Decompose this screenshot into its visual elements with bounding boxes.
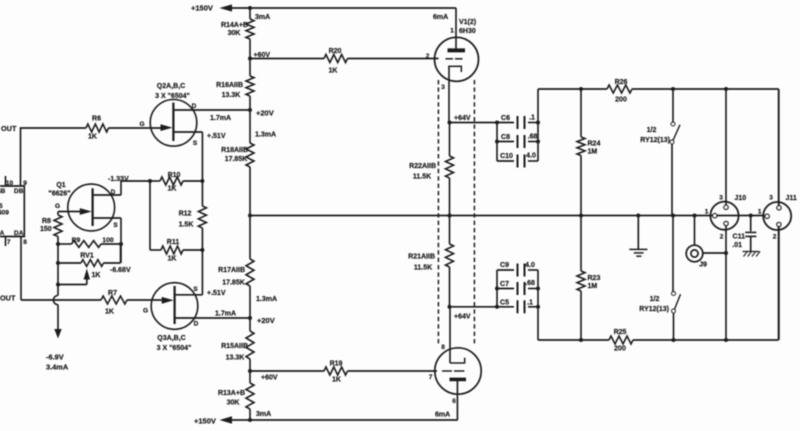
svg-text:+.51V: +.51V: [207, 290, 226, 297]
svg-text:R6: R6: [92, 116, 101, 123]
svg-text:C5: C5: [500, 300, 509, 307]
svg-text:4.0: 4.0: [526, 153, 536, 160]
svg-text:1/2: 1/2: [650, 296, 660, 303]
svg-text:30K: 30K: [228, 30, 241, 37]
svg-text:1.7mA: 1.7mA: [210, 115, 231, 122]
svg-text:3: 3: [769, 195, 773, 202]
svg-text:R7: R7: [108, 290, 117, 297]
svg-text:6: 6: [452, 398, 456, 405]
svg-text:.68: .68: [525, 280, 535, 287]
svg-text:3 X "6504": 3 X "6504": [157, 345, 192, 352]
svg-text:G: G: [55, 203, 60, 210]
svg-text:.1: .1: [527, 300, 533, 307]
svg-text:C10: C10: [500, 153, 513, 160]
svg-text:R23: R23: [588, 275, 601, 282]
svg-text:1K: 1K: [92, 272, 101, 279]
svg-text:2: 2: [720, 234, 724, 241]
svg-text:G: G: [139, 121, 144, 128]
svg-text:C6: C6: [501, 115, 510, 122]
svg-text:1K: 1K: [329, 68, 338, 75]
svg-text:RY12(13): RY12(13): [639, 306, 669, 313]
svg-text:13.3K: 13.3K: [222, 92, 241, 99]
svg-text:OUT: OUT: [0, 294, 16, 303]
svg-text:OUT: OUT: [1, 124, 17, 133]
svg-text:R22AIIB: R22AIIB: [409, 163, 436, 170]
svg-text:7: 7: [429, 374, 433, 381]
svg-text:C7: C7: [500, 281, 509, 288]
svg-text:10: 10: [6, 180, 14, 187]
svg-text:J9: J9: [699, 262, 707, 269]
svg-text:C8: C8: [501, 134, 510, 141]
svg-text:-6.9V: -6.9V: [46, 353, 64, 362]
svg-text:Q3A,B,C: Q3A,B,C: [157, 335, 185, 342]
svg-text:D: D: [192, 103, 197, 110]
svg-text:1: 1: [705, 209, 709, 216]
svg-text:C9: C9: [500, 262, 509, 269]
svg-text:R15AIIB: R15AIIB: [221, 343, 248, 350]
svg-text:D: D: [111, 189, 116, 196]
svg-text:R12: R12: [179, 211, 192, 218]
svg-text:.68: .68: [528, 134, 538, 141]
svg-text:R24: R24: [588, 141, 601, 148]
svg-text:R26: R26: [615, 79, 628, 86]
svg-text:J10: J10: [735, 195, 747, 202]
svg-text:+64V: +64V: [454, 314, 471, 321]
svg-text:3mA: 3mA: [255, 14, 270, 21]
svg-text:1.5K: 1.5K: [179, 222, 194, 229]
svg-text:R19: R19: [330, 361, 343, 368]
svg-text:C11: C11: [733, 234, 746, 241]
svg-text:200: 200: [615, 97, 627, 104]
svg-text:R17AIIB: R17AIIB: [218, 267, 245, 274]
svg-text:J11: J11: [786, 195, 797, 202]
svg-text:R25: R25: [614, 329, 627, 336]
svg-text:3 X "6504": 3 X "6504": [155, 93, 190, 100]
svg-text:8: 8: [23, 239, 27, 246]
svg-text:+150V: +150V: [191, 4, 213, 13]
svg-text:"6626": "6626": [48, 191, 70, 198]
svg-text:4B: 4B: [0, 188, 6, 195]
svg-text:RY12(13): RY12(13): [640, 137, 670, 144]
svg-text:+20V: +20V: [257, 316, 275, 325]
svg-text:4A: 4A: [0, 230, 5, 237]
svg-text:3: 3: [719, 195, 723, 202]
svg-text:S: S: [193, 286, 198, 293]
svg-text:R16AIIB: R16AIIB: [216, 82, 243, 89]
svg-text:6H30: 6H30: [459, 28, 476, 35]
svg-text:1K: 1K: [168, 186, 177, 193]
svg-text:1K: 1K: [105, 309, 114, 316]
svg-text:150: 150: [40, 226, 52, 233]
svg-text:8: 8: [441, 344, 445, 351]
svg-text:G: G: [143, 308, 148, 315]
svg-text:3: 3: [441, 84, 445, 91]
svg-text:30K: 30K: [227, 400, 240, 407]
svg-text:1.3mA: 1.3mA: [255, 132, 276, 139]
svg-text:6mA: 6mA: [435, 412, 450, 419]
svg-text:D: D: [194, 321, 199, 328]
svg-text:R8: R8: [42, 218, 51, 225]
svg-text:R10: R10: [168, 172, 181, 179]
svg-text:2: 2: [773, 234, 777, 241]
svg-text:1.7mA: 1.7mA: [215, 311, 236, 318]
svg-text:409: 409: [0, 210, 9, 217]
svg-text:6mA: 6mA: [433, 14, 448, 21]
svg-text:-1.33V: -1.33V: [108, 176, 129, 183]
svg-text:1K: 1K: [168, 256, 177, 263]
svg-text:1: 1: [758, 209, 762, 216]
svg-text:1K: 1K: [88, 134, 97, 141]
svg-text:11.5K: 11.5K: [414, 265, 432, 272]
svg-text:+60V: +60V: [261, 375, 278, 382]
svg-text:RV1: RV1: [80, 253, 94, 260]
svg-text:17.85K: 17.85K: [225, 156, 248, 163]
svg-text:2: 2: [426, 53, 430, 60]
svg-text:11.5K: 11.5K: [413, 174, 431, 181]
svg-text:+.51V: +.51V: [207, 133, 226, 140]
svg-text:Q2A,B,C: Q2A,B,C: [157, 83, 185, 90]
svg-text:R11: R11: [167, 239, 180, 246]
svg-text:.1: .1: [529, 115, 535, 122]
svg-text:13.3K: 13.3K: [226, 355, 245, 362]
svg-text:-6.68V: -6.68V: [110, 267, 131, 274]
svg-text:1M: 1M: [588, 283, 598, 290]
svg-text:+20V: +20V: [256, 109, 274, 118]
svg-text:4.0: 4.0: [525, 262, 535, 269]
svg-text:V1(2): V1(2): [459, 19, 476, 26]
svg-text:S: S: [113, 222, 118, 229]
svg-text:+150V: +150V: [194, 417, 216, 426]
svg-text:7: 7: [7, 239, 11, 246]
svg-text:DA: DA: [14, 230, 24, 237]
svg-text:3.4mA: 3.4mA: [46, 363, 69, 372]
svg-text:1.3mA: 1.3mA: [256, 296, 277, 303]
svg-text:R21AIIB: R21AIIB: [408, 254, 435, 261]
svg-text:9: 9: [23, 180, 27, 187]
svg-text:R13A+B: R13A+B: [218, 390, 245, 397]
svg-text:DB: DB: [14, 188, 24, 195]
svg-text:1M: 1M: [588, 149, 598, 156]
svg-text:200: 200: [614, 346, 626, 353]
svg-text:R9: R9: [72, 237, 81, 244]
svg-text:17.85K: 17.85K: [222, 280, 245, 287]
svg-text:Q1: Q1: [56, 182, 65, 189]
svg-text:S: S: [193, 140, 198, 147]
svg-text:1: 1: [450, 28, 454, 35]
svg-text:3mA: 3mA: [256, 411, 271, 418]
svg-text:1K: 1K: [332, 377, 341, 384]
svg-text:100: 100: [102, 237, 114, 244]
svg-text:1/2: 1/2: [647, 127, 657, 134]
svg-text:R18AIIB: R18AIIB: [221, 147, 248, 154]
svg-text:.01: .01: [732, 242, 742, 249]
svg-text:R20: R20: [329, 48, 342, 55]
svg-text:R14A+B: R14A+B: [221, 22, 248, 29]
svg-text:+64V: +64V: [454, 115, 471, 122]
